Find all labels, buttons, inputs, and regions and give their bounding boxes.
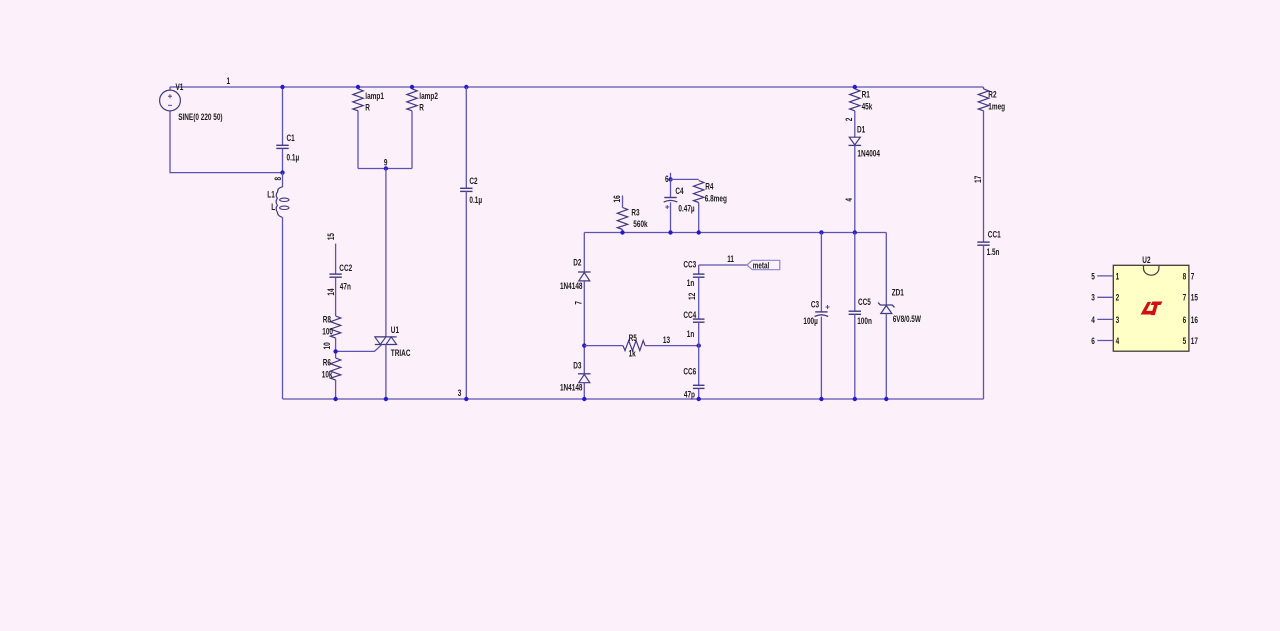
junction dot R1 top (853, 85, 857, 89)
wire ZD1 to bottom rail (885, 314, 887, 400)
svg-text:3: 3 (458, 388, 462, 398)
resistor R5 (623, 341, 645, 351)
C3 plus mark (826, 306, 830, 308)
node 14 label (326, 288, 336, 296)
svg-text:1meg: 1meg (988, 101, 1005, 111)
resistor lamp2 (407, 89, 417, 111)
svg-text:16: 16 (1191, 315, 1199, 325)
U2 LT logo (1141, 302, 1163, 316)
svg-text:D3: D3 (573, 360, 582, 370)
zener diode ZD1 (878, 303, 894, 308)
svg-text:1: 1 (1116, 271, 1120, 281)
svg-text:C3: C3 (811, 299, 820, 309)
svg-text:CC4: CC4 (683, 310, 696, 320)
svg-text:7: 7 (573, 301, 583, 305)
svg-text:D1: D1 (857, 124, 866, 134)
resistor R4 (694, 181, 704, 203)
svg-text:U2: U2 (1142, 255, 1151, 265)
wire CC2 to R8 (335, 277, 337, 316)
svg-text:0.1µ: 0.1µ (469, 195, 482, 205)
node 8 label (273, 176, 283, 180)
voltage source V1 (160, 87, 181, 111)
svg-text:L: L (271, 202, 275, 212)
node 4 label (844, 198, 854, 202)
junction dot node7/R5 (582, 343, 586, 347)
junction dot C2 top (464, 85, 468, 89)
wire net1 corner to R2 (983, 87, 985, 89)
wire bus to CC5 (854, 233, 856, 312)
U2 pin 4 wire (net 6) (1097, 340, 1113, 342)
wire R2 to CC1 net 17 (983, 111, 985, 242)
wire R5 to node 13 (645, 345, 699, 347)
svg-text:100n: 100n (857, 316, 872, 326)
capacitor CC5 (849, 310, 861, 312)
resistor R8 (330, 316, 340, 338)
svg-text:15: 15 (326, 233, 336, 241)
svg-text:L1: L1 (267, 189, 275, 199)
svg-text:2: 2 (844, 117, 854, 121)
svg-text:1N4148: 1N4148 (560, 281, 583, 291)
junction dot node 10 (333, 349, 337, 353)
wire R8 to node 10 (335, 338, 337, 358)
svg-text:4: 4 (844, 198, 854, 202)
capacitor C4 polarized (664, 197, 676, 199)
junction dot lamp1 top (356, 85, 360, 89)
svg-text:0.1µ: 0.1µ (287, 153, 300, 163)
svg-text:9: 9 (384, 157, 388, 167)
svg-text:C1: C1 (287, 133, 296, 143)
svg-text:45k: 45k (862, 101, 873, 111)
junction dot net1/C1 (280, 85, 284, 89)
wire node13 to CC6 (698, 346, 700, 386)
svg-text:2: 2 (1116, 293, 1120, 303)
node 2 label (844, 117, 854, 121)
wire C4 to bus (670, 202, 672, 232)
junction dot node13/CC4 (697, 343, 701, 347)
C4 plus mark (665, 206, 669, 208)
svg-text:U1: U1 (391, 325, 400, 335)
wire net 11 to flag (699, 264, 747, 266)
resistor R6 (330, 358, 340, 380)
wire U1 gate net 10 (336, 345, 382, 352)
svg-text:R8: R8 (323, 314, 332, 324)
resistor R1 (850, 89, 860, 111)
wire node 16 stub (622, 196, 624, 208)
wire D2 to D3 net 7 (583, 280, 585, 374)
svg-text:R3: R3 (631, 207, 640, 217)
wire CC3 to CC4 net 12 (698, 277, 700, 319)
svg-text:CC1: CC1 (988, 229, 1001, 239)
svg-text:1N4004: 1N4004 (857, 149, 880, 159)
wire V1 bottom loop (170, 111, 283, 173)
svg-text:13: 13 (663, 335, 671, 345)
svg-text:lamp1: lamp1 (365, 91, 384, 101)
svg-text:R: R (365, 103, 370, 113)
svg-text:1.5n: 1.5n (987, 247, 1000, 257)
wire flag corner to CC3 (698, 265, 700, 274)
wire top rail net 1 (170, 86, 984, 88)
svg-text:560k: 560k (633, 219, 648, 229)
svg-text:R2: R2 (988, 89, 997, 99)
svg-text:47p: 47p (684, 389, 695, 399)
wire lamp1 down (357, 111, 359, 169)
svg-text:TRIAC: TRIAC (391, 348, 411, 358)
svg-text:10k: 10k (322, 370, 333, 380)
node 12 label (687, 292, 697, 300)
svg-text:ZD1: ZD1 (892, 287, 905, 297)
capacitor CC2 (329, 273, 341, 275)
svg-text:7: 7 (1191, 271, 1195, 281)
capacitor C2 (460, 187, 472, 189)
junction dot R6 bottom (333, 397, 337, 401)
svg-text:4: 4 (1116, 336, 1120, 346)
wire R4 to bus (698, 203, 700, 233)
diode D1 (849, 137, 860, 145)
wire net1 to C2 (465, 87, 467, 188)
wire R6 to bottom rail (335, 380, 337, 399)
IC U2 body (1113, 265, 1189, 351)
wire C2 to bottom rail (465, 191, 467, 399)
svg-text:5: 5 (1091, 271, 1095, 281)
triac U1 (375, 337, 397, 345)
capacitor C3 polarized (815, 311, 827, 313)
svg-text:1n: 1n (687, 278, 695, 288)
wire bus to C3 (820, 233, 822, 312)
svg-text:R1: R1 (862, 89, 871, 99)
junction dot R3/bus (620, 230, 624, 234)
svg-text:3: 3 (1116, 315, 1120, 325)
svg-text:6: 6 (1091, 336, 1095, 346)
svg-text:47n: 47n (340, 281, 351, 291)
node 10 label (322, 342, 332, 350)
svg-text:11: 11 (727, 254, 734, 264)
svg-text:V1: V1 (176, 82, 184, 92)
wire node6 to C4 (670, 179, 672, 197)
wire node7 to R5 (584, 345, 623, 347)
wire node 15 stub (335, 244, 337, 275)
wire U1 to bottom rail (385, 345, 387, 400)
resistor lamp1 (353, 89, 363, 111)
resistor R3 (617, 208, 627, 230)
svg-text:CC3: CC3 (683, 259, 696, 269)
svg-text:7: 7 (1183, 293, 1187, 303)
svg-text:1N4148: 1N4148 (560, 382, 583, 392)
wire bus to ZD1 (885, 233, 887, 306)
capacitor C1 (276, 144, 288, 146)
wire C3 to bottom rail (820, 317, 822, 399)
svg-text:1k: 1k (629, 348, 637, 358)
svg-text:6: 6 (1183, 315, 1187, 325)
svg-text:100: 100 (322, 326, 333, 336)
svg-text:R: R (419, 103, 424, 113)
svg-text:15: 15 (1191, 293, 1199, 303)
svg-text:metal: metal (753, 260, 769, 270)
svg-text:14: 14 (326, 288, 336, 296)
capacitor CC6 (693, 384, 705, 386)
inductor L1 (276, 187, 289, 218)
diode D3 (578, 373, 591, 375)
node 15 label (326, 233, 336, 241)
wire L1 to bottom rail (282, 217, 284, 399)
capacitor CC1 (977, 241, 989, 243)
wire CC6 to bottom rail (698, 388, 700, 399)
svg-text:4: 4 (1091, 315, 1095, 325)
wire bottom rail net 3 (283, 398, 984, 400)
wire mid bus net 4 (584, 232, 886, 234)
junction dot ZD1 bottom (884, 397, 888, 401)
capacitor CC4 (693, 318, 705, 320)
node 7 label (573, 301, 583, 305)
junction dot node 6 (668, 177, 672, 181)
node 16 label (612, 195, 622, 203)
U2 pin 2 wire (net 3) (1097, 296, 1113, 298)
junction dot node 9 (384, 166, 388, 170)
svg-text:8: 8 (1183, 271, 1187, 281)
svg-text:R5: R5 (629, 333, 638, 343)
wire lamp2 down (411, 111, 413, 169)
wire net1 to C1 (282, 87, 284, 145)
junction dot U1 bottom (384, 397, 388, 401)
svg-text:C4: C4 (675, 186, 684, 196)
svg-text:0.47µ: 0.47µ (678, 203, 695, 213)
junction dot D3 bottom (582, 397, 586, 401)
svg-text:3: 3 (1091, 293, 1095, 303)
svg-text:1: 1 (227, 76, 231, 86)
svg-text:lamp2: lamp2 (419, 91, 438, 101)
svg-text:8: 8 (273, 176, 283, 180)
junction dot lamp2 top (410, 85, 414, 89)
diode D2 (578, 271, 591, 273)
svg-text:6V8/0.5W: 6V8/0.5W (893, 314, 922, 324)
wire bus to D2 (583, 233, 585, 273)
junction dot C2 bottom (464, 397, 468, 401)
svg-text:D2: D2 (573, 257, 582, 267)
svg-text:100µ: 100µ (803, 316, 818, 326)
svg-text:CC5: CC5 (858, 297, 871, 307)
svg-text:17: 17 (1191, 336, 1199, 346)
junction dot CC6 bottom (697, 397, 701, 401)
svg-text:R4: R4 (705, 181, 714, 191)
svg-text:10: 10 (322, 342, 332, 350)
svg-text:16: 16 (612, 195, 622, 203)
svg-text:1n: 1n (687, 329, 695, 339)
junction dot C3 bottom (819, 397, 823, 401)
svg-text:CC6: CC6 (683, 366, 696, 376)
wire node9 to U1 (385, 169, 387, 338)
wire CC1 to bottom rail (983, 245, 985, 399)
wire C1 to node 8 (282, 148, 284, 172)
wire node 6 stub (670, 173, 672, 180)
capacitor CC3 (693, 273, 705, 275)
svg-text:12: 12 (687, 292, 697, 300)
wire R1 to D1 net 2 (854, 111, 856, 137)
junction dot C3/bus (819, 230, 823, 234)
svg-text:CC2: CC2 (339, 263, 352, 273)
svg-text:R6: R6 (323, 358, 332, 368)
wire R3 to bus (622, 230, 624, 233)
wire D3 to bottom rail (583, 383, 585, 399)
resistor R2 (978, 89, 988, 111)
junction dot CC5 bottom (853, 397, 857, 401)
svg-text:17: 17 (973, 175, 983, 183)
net flag metal (747, 260, 780, 269)
wire node8 to L1 (282, 173, 284, 188)
junction dot R4/bus (697, 230, 701, 234)
U2 pin 3 wire (net 4) (1097, 318, 1113, 320)
svg-text:6.8meg: 6.8meg (705, 193, 727, 203)
wire D1 to bus net 4 (854, 145, 856, 232)
svg-text:SINE(0 220 50): SINE(0 220 50) (178, 112, 223, 122)
junction dot C4/bus (668, 230, 672, 234)
wire lamp bottoms net 9 (358, 168, 412, 170)
svg-text:C2: C2 (469, 176, 478, 186)
junction dot D1/bus (853, 230, 857, 234)
node 17 label (973, 175, 983, 183)
U2 pin 1 wire (net 5) (1097, 275, 1113, 277)
svg-text:5: 5 (1183, 336, 1187, 346)
wire CC4 to node 13 (698, 322, 700, 345)
wire node6 to R4 (671, 178, 699, 180)
wire CC5 to bottom rail (854, 314, 856, 399)
junction dot node 8 (280, 170, 284, 174)
